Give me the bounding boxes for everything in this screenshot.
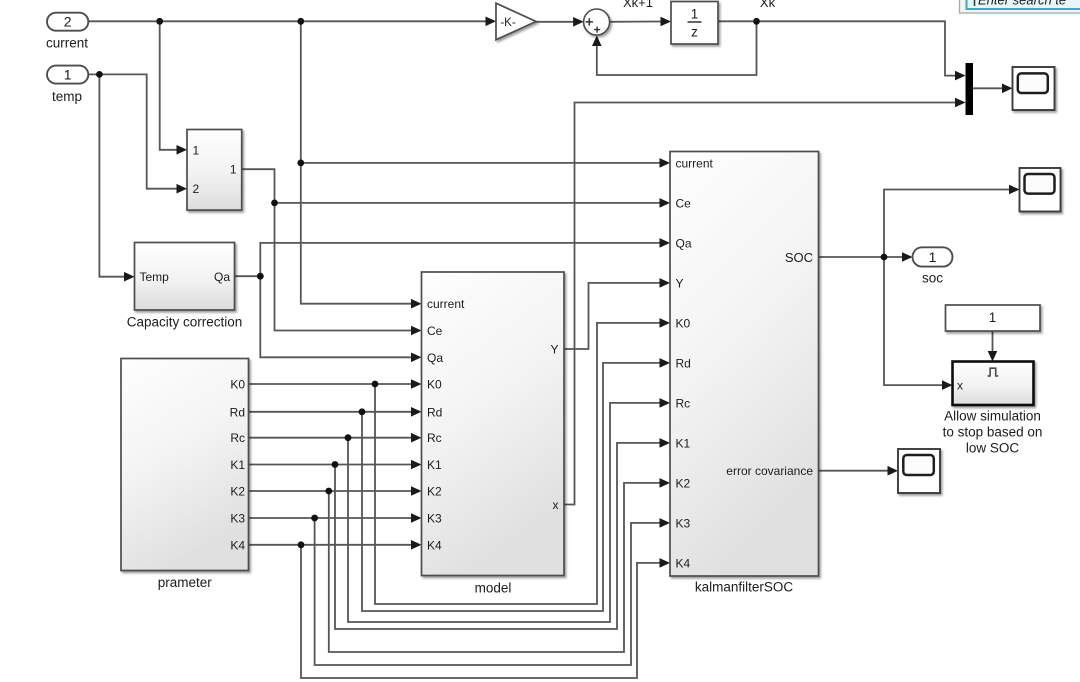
svg-text:model: model: [475, 581, 512, 596]
svg-text:SOC: SOC: [785, 250, 813, 265]
svg-text:Y: Y: [550, 343, 558, 357]
wire: model Y output to kalman Y: [564, 283, 660, 349]
svg-text:Qa: Qa: [214, 270, 230, 284]
Ce subsystem (2-input block): [187, 130, 242, 211]
wire: prameter K3 to model K3: [249, 517, 412, 519]
wire: constant to stop block: [992, 331, 994, 352]
arrow into scope3: [888, 466, 899, 476]
wire: prameter Rd to model Rd: [249, 411, 412, 413]
wire: mux output to scope: [973, 87, 1003, 89]
arrow into kalman Rd: [660, 358, 671, 368]
wire: kalman SOC to soc outport: [819, 256, 903, 258]
wire: K3 loop to kalman K3: [315, 518, 660, 665]
arrow into model K3: [411, 513, 422, 523]
svg-text:x: x: [957, 379, 963, 393]
wire: Rd loop to kalman Rd: [362, 363, 660, 611]
node: current j2: [297, 18, 304, 25]
svg-text:K0: K0: [427, 378, 442, 392]
svg-text:K2: K2: [676, 476, 691, 490]
arrow into model Ce: [411, 326, 422, 336]
wire: K1 loop to kalman K1: [335, 443, 660, 629]
stop simulation block: [943, 362, 1043, 456]
wire: SOC branch up to scope2: [884, 190, 1010, 258]
arrow into scope1: [1002, 84, 1013, 94]
svg-text:Allow simulation: Allow simulation: [944, 409, 1041, 424]
arrow into kalman Qa: [660, 238, 671, 248]
arrow into kalman K1: [660, 438, 671, 448]
wire: K0 loop to kalman K0: [375, 323, 660, 604]
wire: Ce branch to kalman Ce: [275, 202, 661, 204]
svg-text:K0: K0: [230, 378, 245, 392]
node: K4 j: [298, 541, 305, 548]
node: Rd j: [359, 408, 366, 415]
scope3 (error covariance scope): [898, 449, 940, 493]
wire: current inport to gain: [88, 20, 487, 22]
arrow into subsystem input 2: [177, 184, 188, 194]
wire: prameter K2 to model K2: [249, 490, 412, 492]
wire: K4 loop to kalman K4: [301, 545, 660, 678]
svg-text:K0: K0: [676, 316, 691, 330]
node: temp j: [96, 71, 103, 78]
svg-text:K3: K3: [230, 512, 245, 526]
svg-text:K3: K3: [427, 512, 442, 526]
svg-text:Temp: Temp: [140, 270, 170, 284]
outport 1 soc: [913, 247, 953, 285]
svg-text:K4: K4: [676, 556, 691, 570]
arrow into soc outport: [902, 252, 913, 262]
svg-text:current: current: [676, 156, 714, 170]
svg-text:K4: K4: [230, 538, 245, 552]
sum block: [584, 9, 610, 35]
arrow into scope2: [1009, 185, 1020, 195]
arrow into model current: [411, 299, 422, 309]
wire: unit delay Xk out to mux input 1: [718, 21, 955, 75]
svg-text:K2: K2: [230, 485, 245, 499]
svg-text:1: 1: [64, 67, 72, 83]
arrow into kalman K3: [660, 518, 671, 528]
unit delay 1/z: [671, 2, 718, 45]
search box: [960, 0, 1080, 13]
svg-text:Capacity correction: Capacity correction: [127, 315, 243, 330]
svg-text:Enter search te: Enter search te: [978, 0, 1066, 8]
svg-text:Y: Y: [676, 276, 684, 290]
wire: prameter Rc to model Rc: [249, 437, 412, 439]
arrow into model Rc: [411, 433, 422, 443]
wire: current branch down to model current: [301, 21, 412, 303]
svg-text:current: current: [46, 36, 88, 51]
arrow into kalman Y: [660, 278, 671, 288]
arrow into sum left: [573, 17, 584, 27]
svg-text:K1: K1: [676, 436, 691, 450]
svg-text:2: 2: [193, 182, 200, 196]
svg-text:1: 1: [230, 163, 237, 177]
svg-text:error covariance: error covariance: [726, 464, 813, 478]
scope (top right): [1013, 67, 1055, 110]
svg-text:current: current: [427, 297, 465, 311]
node: Ce j: [271, 200, 278, 207]
svg-text:to stop based on: to stop based on: [943, 425, 1043, 440]
arrow into kalman Rc: [660, 398, 671, 408]
wire: K2 loop to kalman K2: [329, 483, 660, 652]
arrow into kalman current: [660, 158, 671, 168]
arrow into subsystem input 1: [177, 145, 188, 155]
wire: Qa branch down to model Qa: [260, 276, 411, 357]
arrow into stop block x: [942, 380, 953, 390]
arrow constant down into stop block: [988, 351, 998, 362]
svg-text:1: 1: [929, 249, 937, 265]
node: Qa j: [257, 273, 264, 280]
svg-text:2: 2: [64, 14, 72, 30]
prameter block: [121, 359, 249, 591]
constant 1: [946, 305, 1041, 331]
svg-text:z: z: [691, 25, 698, 40]
wire: Rc loop to kalman Rc: [348, 403, 660, 622]
node: K0 j: [372, 381, 379, 388]
svg-text:1: 1: [193, 143, 200, 157]
svg-text:K2: K2: [427, 485, 442, 499]
svg-text:Xk: Xk: [760, 0, 776, 10]
node: K1 j: [332, 461, 339, 468]
arrow into mux input 2: [955, 98, 966, 108]
wire: kalman error covariance to scope3: [819, 470, 889, 472]
arrow into unit delay: [661, 17, 672, 27]
arrow into kalman K2: [660, 478, 671, 488]
svg-text:Rc: Rc: [427, 431, 442, 445]
wire: model x output up to mux input 2: [564, 103, 956, 505]
svg-text:Rd: Rd: [676, 356, 691, 370]
arrow into model Rd: [411, 407, 422, 417]
scope2 (soc scope): [1020, 168, 1061, 212]
arrow into mux input 1: [955, 71, 966, 81]
svg-text:prameter: prameter: [158, 575, 213, 590]
arrow into kalman K4: [660, 558, 671, 568]
svg-text:kalmanfilterSOC: kalmanfilterSOC: [695, 580, 794, 595]
svg-text:Qa: Qa: [427, 351, 443, 365]
svg-text:K1: K1: [230, 458, 245, 472]
wire: Qa output to junction: [235, 275, 261, 277]
kalmanfilterSOC block: [670, 152, 819, 595]
svg-text:soc: soc: [922, 271, 943, 286]
node: current-kalman j: [297, 160, 304, 167]
node: K3 j: [311, 515, 318, 522]
arrow into model K2: [411, 486, 422, 496]
model block: [422, 272, 565, 596]
svg-text:1: 1: [691, 7, 699, 22]
wire: SOC branch down to stop block: [884, 257, 943, 385]
svg-text:Rc: Rc: [676, 396, 691, 410]
wire: temp inport to Ce subsystem input 2: [88, 74, 177, 188]
wire: temp branch down to Capacity correction Temp: [99, 74, 124, 276]
inport 2 current: [46, 13, 88, 51]
wire: prameter K1 to model K1: [249, 464, 412, 466]
svg-text:Rd: Rd: [230, 405, 245, 419]
node: current j1: [156, 18, 163, 25]
svg-text:Ce: Ce: [676, 196, 692, 210]
wire: gain to sum: [536, 21, 574, 23]
arrow into model K4: [411, 540, 422, 550]
svg-text:Rd: Rd: [427, 405, 442, 419]
wire: Qa branch up to kalman Qa: [260, 243, 660, 276]
svg-text:K4: K4: [427, 538, 442, 552]
node: SOC j: [881, 254, 888, 261]
svg-text:low SOC: low SOC: [966, 441, 1020, 456]
wire: Ce subsystem output routing: [242, 169, 412, 330]
svg-text:temp: temp: [52, 89, 82, 104]
svg-text:1: 1: [989, 310, 997, 325]
arrow into model K0: [411, 379, 422, 389]
svg-text:Xk+1: Xk+1: [623, 0, 653, 10]
arrow into kalman Ce: [660, 198, 671, 208]
gain -K-: [496, 3, 536, 40]
node: Xk j: [753, 18, 760, 25]
svg-text:-K-: -K-: [500, 17, 516, 29]
wire: prameter K0 to model K0: [249, 383, 412, 385]
mux: [966, 63, 974, 115]
wire: current branch down to subsystem input 1: [160, 21, 177, 150]
wire: current branch to kalman current: [301, 162, 660, 164]
svg-text:Ce: Ce: [427, 324, 443, 338]
arrow into gain: [486, 17, 497, 27]
arrowheads: [124, 17, 1020, 568]
arrow into Capacity correction Temp: [124, 272, 135, 282]
arrow into model Qa: [411, 353, 422, 363]
Capacity correction block: [127, 243, 243, 330]
node: Rc j: [345, 434, 352, 441]
node: K2 j: [325, 488, 332, 495]
svg-text:K1: K1: [427, 458, 442, 472]
svg-text:Qa: Qa: [676, 236, 692, 250]
arrow into kalman K0: [660, 318, 671, 328]
inport 1 temp: [47, 66, 88, 104]
svg-text:Rc: Rc: [230, 431, 245, 445]
svg-text:x: x: [553, 498, 559, 512]
wire: feedback Xk to sum: [597, 21, 757, 75]
arrow into model K1: [411, 460, 422, 470]
arrow into sum bottom: [592, 36, 602, 47]
wire: sum to unit delay Xk+1: [610, 21, 661, 23]
svg-text:K3: K3: [676, 516, 691, 530]
wire: prameter K4 to model K4: [249, 544, 412, 546]
